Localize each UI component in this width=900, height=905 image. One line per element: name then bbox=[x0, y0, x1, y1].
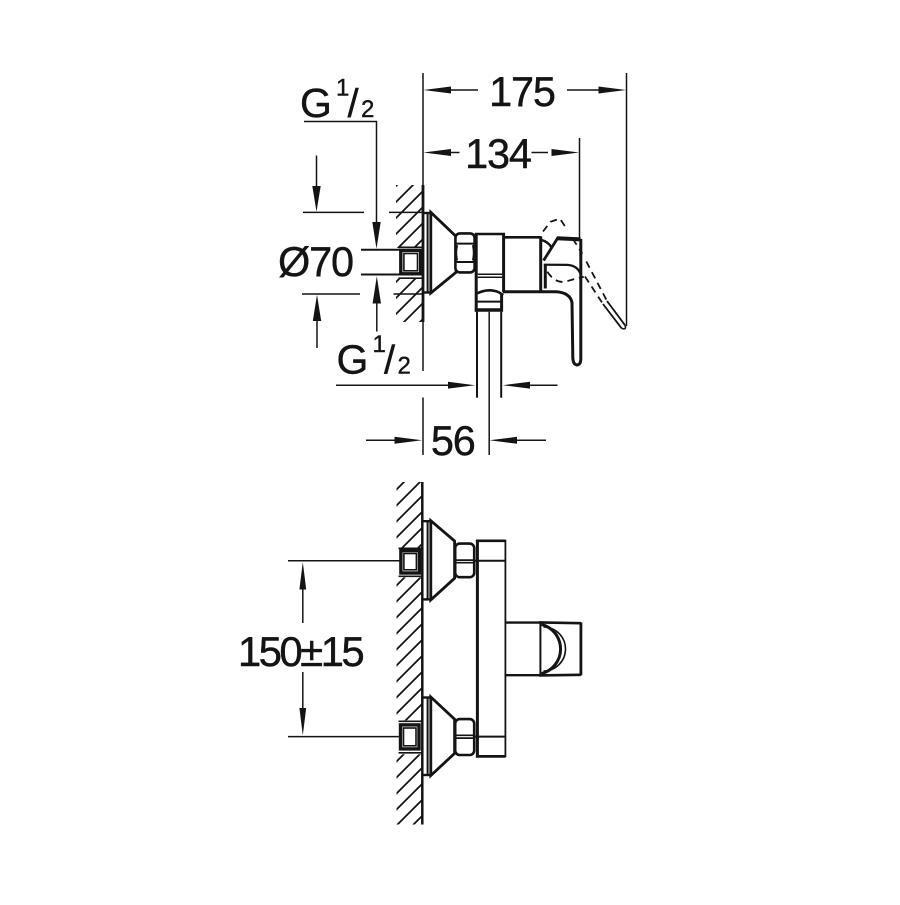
dimension Ø70 bbox=[303, 211, 364, 213]
svg-text:2: 2 bbox=[398, 353, 411, 380]
wall hole white-out at inlet bbox=[394, 248, 423, 278]
bottom inlet: escutcheon cone bbox=[431, 697, 455, 776]
bottom inlet: square union bbox=[401, 725, 420, 749]
arrow up to pipe underside (G 1/2) bbox=[373, 276, 381, 303]
wall hole break lines top inlet bbox=[399, 547, 423, 549]
handle end cap (bottom view) bbox=[539, 621, 581, 624]
wall hole white-outs bbox=[394, 548, 423, 578]
dimension 175 bbox=[450, 89, 478, 91]
extension line right for 134 bbox=[579, 138, 581, 240]
svg-text:134: 134 bbox=[465, 130, 531, 177]
shower outlet dome bbox=[477, 290, 503, 295]
bottom inlet: hex nut bbox=[455, 719, 474, 755]
hex nut (top view) bbox=[455, 233, 474, 272]
escutcheon cone bbox=[431, 212, 456, 293]
svg-text:G: G bbox=[300, 80, 332, 126]
outlet pipe walls bbox=[476, 312, 478, 398]
leader for G 1/2 top bbox=[304, 122, 377, 224]
svg-text:150±15: 150±15 bbox=[238, 628, 363, 675]
extension line left (wall face, below view) bbox=[422, 322, 424, 371]
inlet passage lines across plate bbox=[474, 560, 505, 562]
svg-text:2: 2 bbox=[361, 96, 374, 123]
wall hole break lines bottom inlet bbox=[399, 720, 423, 722]
leader for G 1/2 bottom bbox=[336, 384, 449, 386]
label G 1/2 (top) bbox=[300, 75, 374, 127]
escutcheon flange plate bbox=[427, 212, 429, 293]
svg-text:/: / bbox=[348, 82, 360, 126]
wall hatching (top view) bbox=[396, 185, 422, 322]
svg-text:56: 56 bbox=[431, 417, 475, 464]
bottom inlet: escutcheon flange bbox=[427, 697, 429, 776]
wall hole break line upper bbox=[399, 246, 423, 248]
dimension 150±15 bbox=[299, 562, 306, 590]
handle open position (dashed) bbox=[543, 219, 607, 304]
body plate (bottom view) bbox=[476, 540, 479, 758]
supply pipe stub in wall bbox=[361, 249, 400, 251]
svg-text:G: G bbox=[337, 337, 369, 383]
valve body front section bbox=[475, 233, 478, 312]
top inlet: escutcheon flange bbox=[427, 521, 429, 600]
cartridge neck (bottom view) bbox=[505, 621, 540, 623]
wall hatching (bottom view) bbox=[397, 482, 423, 825]
label G 1/2 (bottom) bbox=[337, 331, 411, 383]
svg-text:175: 175 bbox=[489, 68, 555, 115]
svg-text:Ø70: Ø70 bbox=[278, 238, 353, 285]
square union fitting (top view) bbox=[401, 250, 421, 273]
handle crescent face bbox=[542, 624, 561, 673]
dimension 134 bbox=[451, 152, 460, 154]
extension line left (wall face, above view) bbox=[422, 73, 424, 185]
valve main body bbox=[504, 236, 541, 239]
handle (closed position) bbox=[544, 237, 559, 260]
wall face line (bold) bbox=[422, 185, 425, 322]
extension line right for 175 bbox=[626, 73, 628, 326]
svg-text:/: / bbox=[384, 339, 396, 383]
top inlet: hex nut bbox=[455, 544, 474, 578]
outlet axis / 56 extension line bbox=[488, 312, 490, 455]
handle lever bbox=[556, 239, 581, 365]
top inlet: escutcheon cone bbox=[431, 521, 455, 600]
wall face line (bottom view) bbox=[421, 482, 424, 825]
shower outlet union nut bbox=[500, 295, 503, 312]
dimension 56 bbox=[366, 439, 395, 441]
top inlet: square union bbox=[401, 551, 420, 573]
wall hole break line lower bbox=[399, 277, 423, 279]
dimension 150±15 extension lines bbox=[288, 560, 400, 562]
